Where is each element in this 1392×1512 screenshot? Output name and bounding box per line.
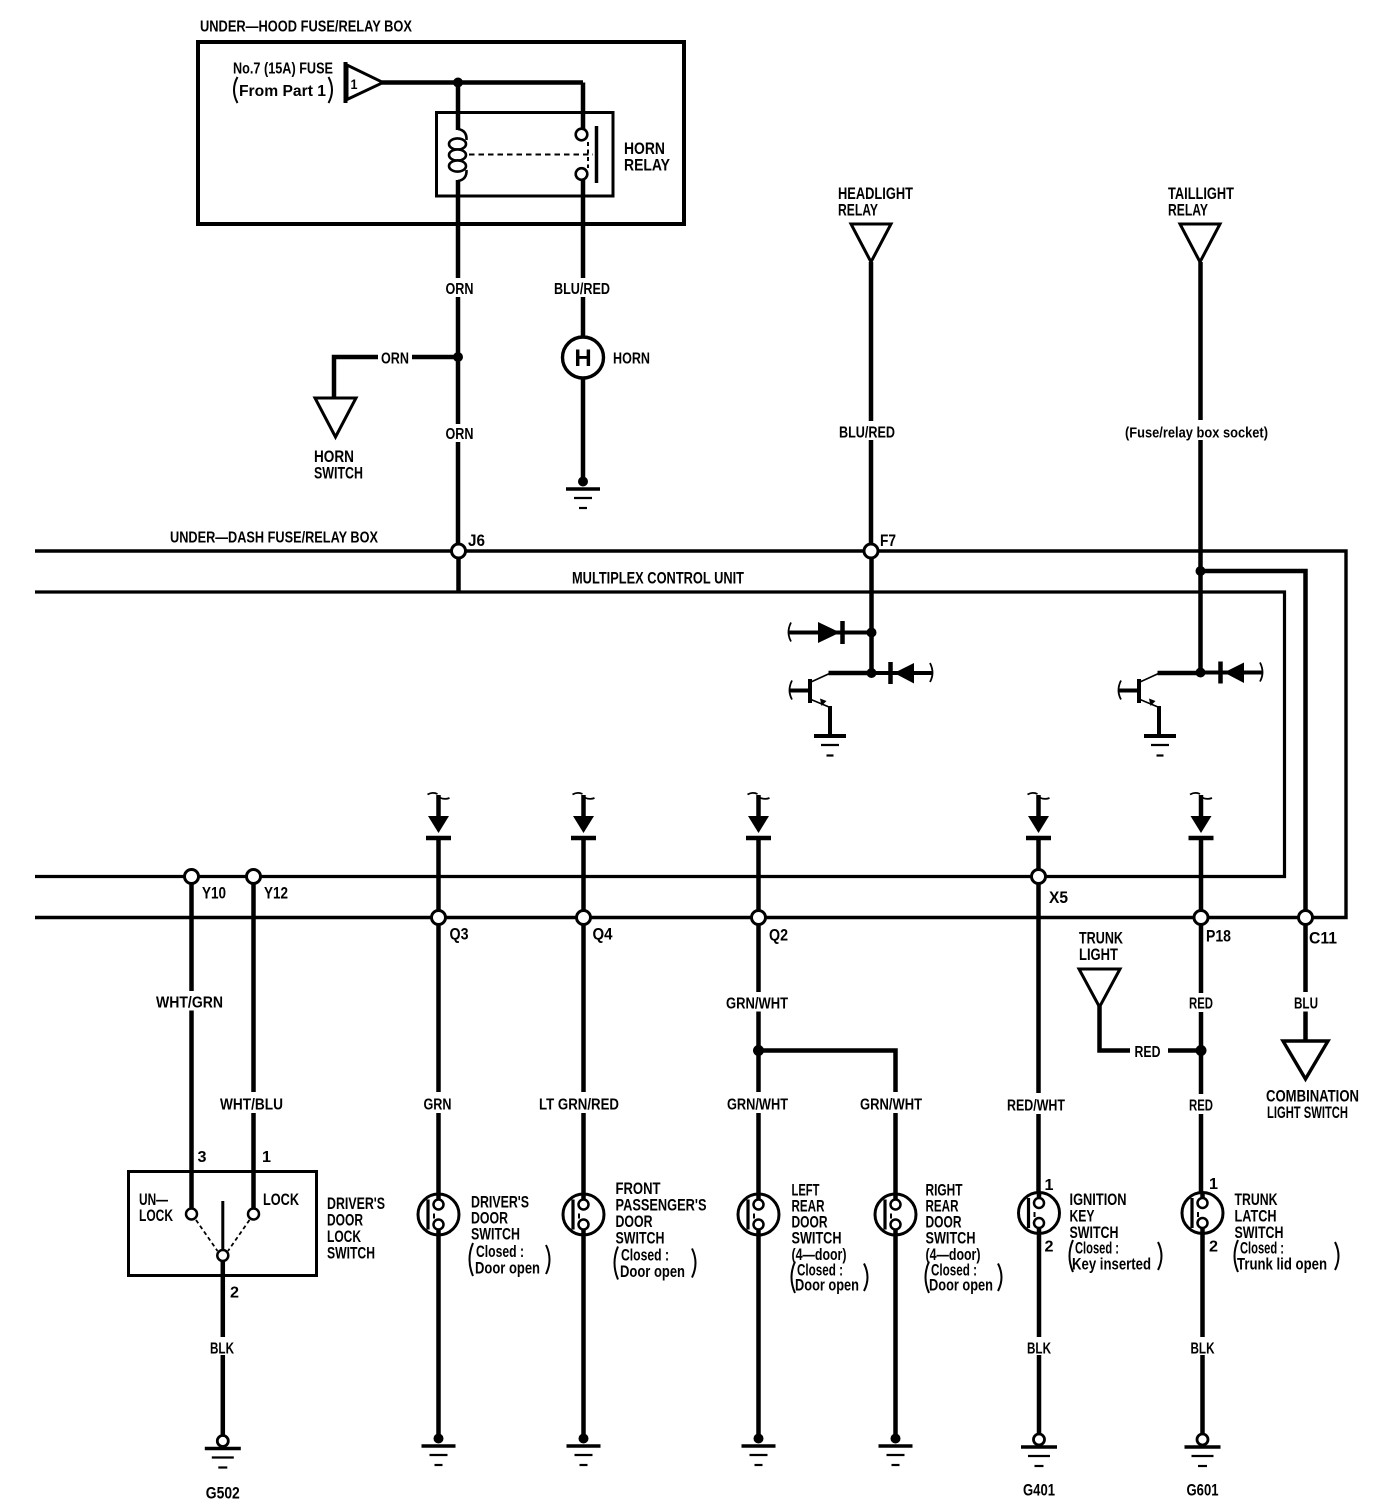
diode (driver door switch input) (down-pointing diode into multiplex control unit) [426,793,451,838]
under-hood fuse/relay box outline [198,42,684,224]
wire: relay contact to horn (BLU/RED) [581,179,586,338]
svg-text:ORN: ORN [446,281,474,298]
wire: branch to horn switch (ORN) [334,357,458,398]
junction: diode / collector feed [867,628,877,638]
connector Y12 [247,870,261,884]
svg-text:1: 1 [1045,1177,1054,1194]
svg-text:RED: RED [1189,1098,1213,1115]
trunk light symbol [1079,969,1120,1007]
svg-text:Y12: Y12 [264,884,288,903]
connector P18 [1194,911,1208,925]
ground G401 [1021,1434,1057,1466]
svg-text:LIGHT SWITCH: LIGHT SWITCH [1267,1104,1348,1122]
wire: Q3 to driver's door switch (GRN) [436,925,441,1194]
fuse No.7 (15A) value label [233,61,333,104]
svg-text:RELAY: RELAY [838,202,878,220]
horn switch symbol [315,398,356,437]
connector Q4 [577,911,591,925]
svg-text:SWITCH: SWITCH [792,1230,842,1248]
svg-text:PASSENGER'S: PASSENGER'S [616,1197,707,1215]
svg-text:Door open: Door open [620,1263,685,1281]
svg-text:SWITCH: SWITCH [471,1226,520,1244]
svg-text:DOOR: DOOR [327,1212,363,1230]
multiplex control unit edge (top, right, bottom) [35,592,1285,877]
svg-text:From Part 1: From Part 1 [239,83,326,100]
ground (driver's door switch) [422,1434,456,1466]
horn relay armature dashed link [469,142,593,168]
svg-text:G502: G502 [206,1485,240,1503]
wire: horn to ground [581,378,586,480]
svg-text:BLU/RED: BLU/RED [554,281,610,298]
trunk latch switch [1182,1193,1223,1234]
wire: diode to P18 [1199,840,1204,910]
svg-text:RELAY: RELAY [624,157,670,175]
svg-text:HORN: HORN [624,140,665,158]
svg-text:LOCK: LOCK [327,1228,361,1246]
wire: front passenger door switch to ground [581,1236,586,1436]
junction: collector node (right) [1196,668,1206,678]
svg-text:H: H [574,345,591,372]
wire: taillight relay down (fuse/relay box socket) [1198,262,1203,568]
svg-text:SWITCH: SWITCH [926,1230,976,1248]
svg-text:TRUNK: TRUNK [1235,1191,1278,1209]
svg-text:HEADLIGHT: HEADLIGHT [838,185,913,203]
svg-text:RED: RED [1189,996,1213,1013]
svg-text:COMBINATION: COMBINATION [1266,1088,1359,1106]
svg-text:1: 1 [351,76,358,92]
diode (into collector node, pointing right) [788,621,872,644]
junction: collector node [867,668,877,678]
ground G502 [205,1436,241,1468]
wire: branch to right rear door switch (GRN/WHT) [759,1051,896,1194]
wire: left rear door switch to ground [756,1236,761,1436]
under-dash fuse/relay box edge (top, right, bottom) [35,551,1346,918]
wire: junction down to relay coil [456,83,461,131]
svg-text:3: 3 [198,1149,207,1166]
ground G601 [1185,1434,1221,1466]
junction: fuse wire / relay coil feed [453,78,463,88]
svg-text:DRIVER'S: DRIVER'S [327,1195,385,1213]
svg-text:TAILLIGHT: TAILLIGHT [1168,185,1234,203]
connector Y10 [185,870,199,884]
svg-text:BLU/RED: BLU/RED [839,425,895,442]
ground (front passenger door switch) [567,1434,601,1466]
svg-text:IGNITION: IGNITION [1070,1191,1127,1209]
connector X5 [1032,870,1046,884]
combination light switch symbol [1283,1041,1328,1079]
svg-text:Q4: Q4 [593,925,613,944]
taillight relay symbol triangle [1180,224,1220,262]
junction: trunk light / P18 wire [1196,1045,1207,1056]
svg-text:1: 1 [262,1149,271,1166]
svg-text:G401: G401 [1023,1482,1055,1500]
wire: headlight relay to F7 (BLU/RED) [869,262,874,545]
wire: C11 to combination light switch (BLU) [1303,925,1308,1042]
svg-text:P18: P18 [1206,927,1231,946]
wire: X5 to ignition key switch (RED/WHT) [1036,884,1041,1192]
svg-text:LATCH: LATCH [1235,1208,1277,1226]
svg-text:Y10: Y10 [202,884,226,903]
svg-text:DOOR: DOOR [616,1213,653,1231]
svg-text:UNDER—DASH FUSE/RELAY BOX: UNDER—DASH FUSE/RELAY BOX [170,530,378,547]
svg-text:BLU: BLU [1294,996,1318,1013]
svg-text:(Fuse/relay box socket): (Fuse/relay box socket) [1125,425,1268,442]
right rear door switch [875,1194,916,1235]
horn relay coil [449,129,467,181]
wire: diode to Q3 [436,840,441,910]
svg-text:2: 2 [230,1285,239,1302]
wire: diode to Q4 [581,840,586,910]
svg-text:C11: C11 [1309,929,1337,948]
svg-text:Door open: Door open [475,1260,540,1278]
svg-text:1: 1 [1209,1176,1218,1193]
wire: relay coil to horn switch junction (ORN) [456,180,461,545]
wire: Y12 to lock switch pin 1 (WHT/BLU) [251,884,256,1209]
diode (front passenger door switch input) (down-pointing diode into multiplex control unit) [571,793,596,838]
ignition key switch [1019,1193,1060,1234]
svg-text:UNDER—HOOD FUSE/RELAY BOX: UNDER—HOOD FUSE/RELAY BOX [200,19,412,36]
svg-text:G601: G601 [1187,1482,1219,1500]
svg-text:FRONT: FRONT [616,1180,661,1198]
svg-text:Key inserted: Key inserted [1072,1256,1151,1274]
fuse No.7 symbol (triangle, pin 1) [346,62,384,103]
wire: P18 to trunk latch switch (RED) [1199,925,1204,1192]
svg-text:BLK: BLK [210,1341,235,1358]
svg-text:GRN/WHT: GRN/WHT [727,1097,788,1114]
driver's door switch [418,1194,459,1235]
wire: fuse output to horn relay feed [382,80,583,85]
front passenger door switch [563,1194,604,1235]
wire: right rear door switch to ground [893,1236,898,1436]
svg-text:LOCK: LOCK [139,1207,173,1225]
svg-text:SWITCH: SWITCH [327,1245,375,1263]
wire: trunk latch switch to G601 (BLK) [1200,1235,1205,1435]
svg-text:MULTIPLEX CONTROL UNIT: MULTIPLEX CONTROL UNIT [572,570,744,588]
svg-text:GRN: GRN [424,1097,452,1114]
junction: ORN wire / horn switch branch [453,352,463,362]
junction: rear door switch branch [753,1045,764,1056]
svg-text:2: 2 [1045,1239,1054,1256]
ground (left transistor emitter) [814,736,846,756]
svg-text:RED: RED [1135,1044,1161,1061]
svg-text:X5: X5 [1049,888,1068,907]
svg-text:WHT/BLU: WHT/BLU [220,1097,283,1114]
ground (right transistor emitter) [1144,736,1176,756]
diode (from collector node, pointing left) [872,662,934,684]
wire: trunk light to RED junction [1100,1006,1200,1051]
horn relay contacts [576,126,597,183]
left rear door switch [738,1194,779,1235]
svg-text:KEY: KEY [1070,1208,1095,1226]
svg-text:Door open: Door open [795,1277,859,1295]
wire: Y10 to lock switch pin 3 (WHT/GRN) [189,884,194,1209]
svg-text:Closed :: Closed : [476,1243,524,1261]
diode (from collector node, pointing left) [1201,662,1264,684]
svg-text:Closed :: Closed : [621,1247,669,1265]
wire: diode to X5 [1036,840,1041,870]
svg-text:2: 2 [1209,1239,1218,1256]
wire: J6 stub into multiplex unit [456,558,461,592]
svg-text:TRUNK: TRUNK [1079,930,1123,948]
svg-text:WHT/GRN: WHT/GRN [156,995,223,1012]
svg-text:GRN/WHT: GRN/WHT [860,1097,922,1114]
svg-text:HORN: HORN [613,351,650,368]
transistor (taillight drive) (NPN transistor in multiplex control unit) [1118,673,1201,736]
svg-text:LT GRN/RED: LT GRN/RED [539,1097,619,1114]
wire: diode to Q2 [756,840,761,911]
wire: F7 down to transistor collector [869,558,874,673]
svg-text:No.7 (15A) FUSE: No.7 (15A) FUSE [233,61,333,78]
svg-text:Q3: Q3 [450,925,469,944]
diode (rear door switch input) (down-pointing diode into multiplex control unit) [746,793,771,838]
ground (left rear door switch) [742,1434,776,1466]
wire: driver's door switch to ground [436,1236,441,1436]
svg-text:BLK: BLK [1191,1341,1216,1358]
svg-text:ORN: ORN [381,351,409,368]
wire: ignition key switch to G401 (BLK) [1037,1235,1042,1435]
ground (right rear door switch) [879,1434,913,1466]
horn relay box [437,113,614,197]
transistor (horn drive) (NPN transistor in multiplex control unit) [789,673,872,736]
ground (horn) [566,477,600,509]
diode (ignition key switch input) (down-pointing diode into multiplex control unit) [1026,793,1051,838]
svg-text:SWITCH: SWITCH [616,1230,665,1248]
junction: taillight line to C11 branch [1196,566,1206,576]
svg-text:BLK: BLK [1027,1341,1052,1358]
svg-text:Door open: Door open [929,1277,993,1295]
connector Q2 [752,911,766,925]
diode (trunk latch switch input) (down-pointing diode into multiplex control unit) [1189,793,1214,838]
connector J6 [452,544,466,558]
horn [563,337,604,378]
headlight relay symbol triangle [851,224,891,262]
svg-text:LOCK: LOCK [263,1191,299,1209]
svg-text:HORN: HORN [314,448,354,466]
svg-text:ORN: ORN [446,426,474,443]
connector Q3 [432,911,446,925]
connector F7 [864,544,878,558]
svg-text:F7: F7 [880,531,896,550]
wire: branch to C11 [1201,571,1306,910]
wire: junction down to right collector node [1198,571,1203,673]
svg-text:GRN/WHT: GRN/WHT [726,996,788,1013]
driver's door lock switch [129,1172,317,1276]
wire: Q2 to left rear door switch (GRN/WHT) [756,925,761,1194]
svg-text:Q2: Q2 [769,926,788,945]
svg-text:RELAY: RELAY [1168,202,1208,220]
wire: lock switch pin 2 to G502 (BLK) [221,1261,226,1436]
wire: feed down to relay contact [581,83,586,131]
svg-text:Trunk lid open: Trunk lid open [1237,1256,1327,1274]
wire: Q4 to front passenger door switch (LT GRN/RED) [581,925,586,1194]
svg-text:RED/WHT: RED/WHT [1007,1098,1065,1115]
svg-text:SWITCH: SWITCH [314,465,363,483]
svg-text:LIGHT: LIGHT [1079,946,1118,964]
svg-text:J6: J6 [468,531,485,550]
connector C11 [1299,911,1313,925]
